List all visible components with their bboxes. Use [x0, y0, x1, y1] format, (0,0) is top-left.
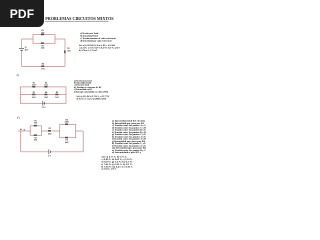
svg-text:R5: R5 [56, 92, 58, 94]
wire: parallel block 1 loop [30, 126, 41, 136]
svg-text:2kΩ: 2kΩ [34, 139, 38, 141]
wire: inner parallel loop [33, 35, 55, 44]
wire: parallel block 2 loop [60, 124, 76, 137]
svg-text:1kΩ: 1kΩ [41, 32, 45, 34]
svg-text:PROBLEMAS CIRCUITOS MIXTOS: PROBLEMAS CIRCUITOS MIXTOS [45, 16, 114, 21]
wire: left vertical upper [21, 39, 23, 48]
problem 2 solution lines [77, 95, 111, 100]
svg-text:10kΩ: 10kΩ [64, 122, 69, 124]
resistor R3 (middle branch left) [32, 94, 35, 96]
resistor R2 (block1 bottom) [34, 134, 37, 136]
wire: left vertical lower [21, 51, 23, 67]
resistor R2 (bottom of parallel pair) [41, 42, 44, 44]
wire: right vertical [82, 131, 84, 152]
resistor R1 (top of parallel pair) [41, 34, 44, 36]
svg-text:1kΩ: 1kΩ [34, 122, 38, 124]
wire: right vertical upper [64, 39, 66, 50]
wire: R3 to block 2 [52, 130, 60, 132]
problem 1 solution lines [79, 44, 120, 52]
svg-text:R3: R3 [33, 92, 35, 94]
resistor R2 (top branch right) [44, 86, 47, 88]
svg-text:1kΩ: 1kΩ [44, 85, 48, 87]
wire: block1 to R3 [42, 130, 49, 132]
title underline [45, 20, 108, 22]
problem 2 statement list [74, 79, 108, 93]
resistor R4 (middle branch center) [44, 94, 47, 96]
svg-text:1kΩ: 1kΩ [41, 69, 45, 71]
wire: right vertical lower [64, 54, 66, 67]
svg-text:d) 4,74 mA; 1,72 mA: d) 4,74 mA; 1,72 mA [79, 49, 98, 52]
svg-text:PDF: PDF [10, 7, 34, 21]
svg-text:R3: R3 [49, 128, 51, 130]
svg-text:3º): 3º) [17, 116, 20, 119]
svg-text:f) Energía consumida en 2 días: f) Energía consumida en 2 días (Wh) [74, 90, 108, 93]
problem 3 statement list [111, 120, 147, 155]
svg-text:d) 0,9 V; e) 1 mA; f) 0,98814: d) 0,9 V; e) 1 mA; f) 0,98814 kWh [77, 97, 108, 100]
wire: middle horizontal branch [20, 94, 66, 96]
resistor R5 (middle branch right) [55, 94, 58, 96]
svg-text:4kΩ: 4kΩ [48, 132, 52, 135]
svg-text:n) 1,04 A; 1,76 A: n) 1,04 A; 1,76 A [102, 168, 117, 171]
svg-text:2kΩ: 2kΩ [41, 48, 45, 50]
wire: bottom return left part [21, 151, 49, 153]
battery V1 plate long [19, 47, 24, 49]
resistor R1 (block1 top) [34, 125, 37, 127]
svg-text:2º): 2º) [17, 74, 20, 77]
wire: block2 to right corner [76, 130, 84, 132]
wire: outer rectangle [20, 87, 66, 103]
resistor R3 (right branch) [64, 50, 66, 53]
resistor R5 (block2 bottom) [65, 137, 68, 139]
battery V1 plate long (bottom side) [42, 101, 44, 106]
wire: right stub from parallel block [55, 38, 65, 40]
problem 3 solution lines [102, 156, 134, 171]
resistor R1 (top branch left) [32, 86, 35, 88]
battery V1 plate long [48, 149, 50, 154]
resistor R4 (block2 top) [65, 124, 68, 126]
node A tick [20, 129, 21, 130]
svg-text:1kΩ: 1kΩ [55, 97, 59, 99]
resistor R4 (bottom branch) [41, 66, 44, 68]
wire: left vertical [20, 131, 22, 152]
problem 1 statement list [80, 32, 116, 43]
svg-text:d) Intensidad por cada resiste: d) Intensidad por cada resistencia [80, 40, 112, 43]
svg-text:2kΩ: 2kΩ [67, 51, 71, 53]
svg-text:2kΩ: 2kΩ [32, 97, 36, 99]
node B tick [24, 129, 25, 130]
PDF badge [0, 0, 44, 27]
svg-text:o) Intensidades por R2 y: o) Intensidades por R2 y [112, 151, 142, 154]
wire: bottom side [22, 65, 66, 67]
svg-text:R4: R4 [45, 91, 47, 94]
battery V1 plate short [49, 151, 51, 153]
wire: bottom return right part [51, 151, 83, 153]
svg-text:4kΩ: 4kΩ [65, 141, 69, 144]
svg-text:2kΩ: 2kΩ [44, 97, 48, 99]
svg-text:R4: R4 [42, 63, 44, 66]
battery V1 plate short [43, 102, 45, 104]
wire: input lead [18, 130, 30, 132]
wire: left stub from parallel block [22, 38, 34, 40]
svg-text:3kΩ: 3kΩ [32, 85, 36, 87]
resistor R3 (series) [48, 130, 51, 132]
battery V1 plate short [20, 49, 23, 51]
